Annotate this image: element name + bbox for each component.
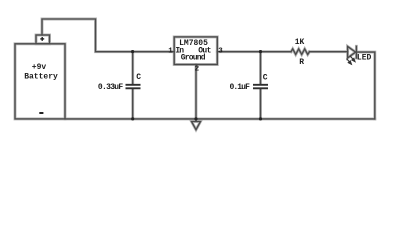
svg-text:Battery: Battery [24,72,58,81]
svg-text:LED: LED [357,53,372,62]
svg-text:1K: 1K [295,38,305,47]
junction dot output cap node [259,50,262,53]
svg-text:1: 1 [168,47,173,55]
wire halo layer [15,19,375,130]
junction dot rail at ground [194,117,197,120]
junction dot rail under C2 [259,117,262,120]
svg-text:R: R [299,58,304,67]
svg-text:C: C [263,73,268,82]
svg-text:3: 3 [218,47,223,55]
junction dot rail under C1 [131,117,134,120]
junction dot input cap node [131,50,262,121]
capacitor C 0.1uF plates [253,85,268,89]
svg-text:+9v: +9v [32,63,47,72]
svg-text:2: 2 [195,66,200,74]
svg-text:0.1uF: 0.1uF [229,83,250,92]
svg-text:Ground: Ground [181,54,206,63]
svg-text:C: C [136,73,141,82]
battery minus mark [39,112,43,114]
svg-text:0.33uF: 0.33uF [98,83,124,92]
battery plus mark [40,37,44,41]
LED light emission arrows [347,56,355,64]
capacitor C 0.33uF plates [126,85,141,89]
wire core layer [15,19,375,130]
